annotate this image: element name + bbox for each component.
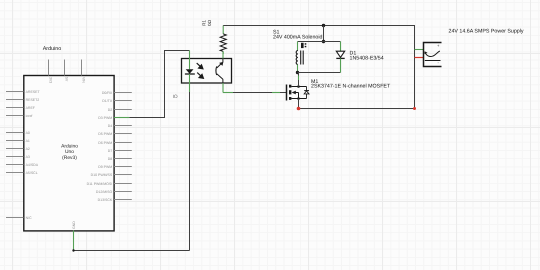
svg-text:Arduino: Arduino [43, 46, 62, 52]
pin GND (bottom) [72, 221, 76, 239]
svg-text:3V3: 3V3 [49, 77, 53, 83]
svg-text:(Rev3): (Rev3) [62, 155, 77, 161]
svg-text:A0: A0 [26, 131, 30, 135]
svg-text:D1/TX: D1/TX [102, 99, 113, 103]
svg-text:0Ω: 0Ω [207, 19, 212, 26]
wire optocoupler emitter to gate (green end) [223, 92, 233, 94]
svg-text:D3 PWM: D3 PWM [98, 116, 112, 120]
wire plug positive [415, 49, 424, 51]
optocoupler LED cathode leg [189, 74, 191, 92]
wire GND pin to ground rail [73, 239, 75, 251]
pin D10 PWM/SS (right) [91, 173, 132, 177]
pin D2 (right) [108, 108, 132, 112]
mosfet M1 gate bar [286, 85, 288, 101]
pin D7 (right) [108, 149, 132, 153]
svg-text:D8: D8 [108, 157, 113, 161]
diode D1 top leg [340, 42, 342, 52]
diode D1 [336, 51, 344, 58]
wire rail drop [323, 26, 325, 42]
svg-text:Uno: Uno [65, 149, 74, 155]
wire gate leg end [280, 92, 287, 94]
pin A5/SCL (left) [6, 171, 38, 175]
mosfet M1 drain leg [298, 73, 300, 76]
junction solenoid bottom node [296, 71, 299, 74]
wire source return to supply [299, 108, 415, 110]
junction source (red) [297, 107, 301, 111]
svg-text:D0/RX: D0/RX [102, 91, 113, 95]
optocoupler LED [185, 69, 195, 74]
resistor R1 top leg [222, 26, 224, 34]
resistor R1 bottom leg [222, 51, 224, 54]
pin A0 (left) [6, 131, 30, 135]
svg-text:AREF: AREF [26, 106, 35, 110]
pin ARESET (left) [6, 90, 40, 94]
svg-text:5V: 5V [65, 77, 69, 82]
pin D1/TX (right) [102, 99, 132, 103]
svg-text:A4/SDA: A4/SDA [26, 163, 39, 167]
svg-text:ARESET: ARESET [26, 90, 41, 94]
pin N/C (left) [6, 216, 32, 220]
pin D6 PWM (right) [98, 141, 132, 145]
wire optocoupler emitter to gate (middle) [233, 92, 272, 94]
wire plug negative (red) [415, 57, 424, 59]
mosfet M1 drain stub [291, 86, 306, 88]
resistor R1 [220, 34, 226, 52]
svg-text:IO: IO [173, 94, 178, 100]
mosfet M1 source leg [298, 99, 300, 109]
power plug J1 [424, 43, 442, 67]
solenoid S1 top leg [297, 42, 299, 51]
optocoupler LED anode leg [189, 51, 191, 70]
wire solenoid top row [298, 41, 341, 43]
junction drain stub [297, 85, 300, 88]
junction source stub [297, 97, 300, 100]
wire solenoid bottom to diode [298, 72, 341, 74]
diode D1 bottom leg [340, 58, 342, 72]
pin D8 (right) [108, 157, 132, 161]
pin A3 (left) [6, 155, 30, 159]
mosfet M1 channel pads [289, 85, 291, 100]
optocoupler phototransistor [216, 59, 223, 84]
svg-text:GND: GND [72, 221, 76, 229]
pin 3V3 (top) [49, 60, 53, 84]
solenoid S1 [296, 43, 306, 65]
junction return corner (red) [413, 107, 416, 110]
Arduino module body [24, 76, 114, 231]
pin D0/RX (right) [102, 91, 132, 95]
svg-text:D2: D2 [108, 108, 113, 112]
optocoupler emitter leg [222, 83, 224, 93]
svg-text:D13/SCK: D13/SCK [98, 198, 113, 202]
svg-text:VIN: VIN [82, 77, 86, 83]
pin D13/SCK (right) [98, 198, 132, 202]
svg-text:ioref: ioref [26, 114, 33, 118]
pin D3 PWM (right) [98, 116, 129, 120]
pin 5V (top) [65, 60, 69, 82]
svg-text:24V 14.6A SMPS Power Supply: 24V 14.6A SMPS Power Supply [449, 29, 524, 35]
pin ioref (left) [6, 114, 32, 118]
svg-text:D7: D7 [108, 149, 113, 153]
svg-text:D5 PWM: D5 PWM [98, 132, 112, 136]
pin A4/SDA (left) [6, 163, 39, 167]
pin D5 PWM (right) [98, 132, 132, 136]
pin AREF (left) [6, 106, 35, 110]
pin RESET2 (left) [6, 98, 39, 102]
mosfet M1 bulk arrow [292, 91, 299, 99]
svg-text:24V 400mA Solenoid: 24V 400mA Solenoid [273, 34, 323, 40]
optocoupler light arrows [197, 63, 204, 78]
svg-text:2SK3747-1E N-channel MOSFET: 2SK3747-1E N-channel MOSFET [311, 84, 391, 90]
wire ground rail [74, 250, 190, 252]
svg-text:R1: R1 [201, 19, 206, 25]
mosfet M1 source stub [291, 98, 306, 100]
svg-text:D6 PWM: D6 PWM [98, 141, 112, 145]
svg-text:D9 PWM: D9 PWM [98, 165, 112, 169]
wire +24V top rail [223, 26, 414, 109]
optocoupler body [182, 59, 232, 84]
svg-text:D10 PWM/SS: D10 PWM/SS [91, 173, 113, 177]
pin D4 (right) [108, 124, 132, 128]
svg-text:A1: A1 [26, 139, 30, 143]
svg-text:D4: D4 [108, 124, 113, 128]
mosfet M1 gate leg (green wire end) [272, 92, 280, 94]
solenoid S1 bottom leg [297, 65, 299, 73]
svg-text:A2: A2 [26, 147, 30, 151]
svg-text:Arduino: Arduino [61, 144, 78, 150]
svg-text:A3: A3 [26, 155, 30, 159]
wire LED cathode down to ground rail [189, 92, 191, 251]
Arduino Uno (Rev3) label [61, 144, 78, 161]
svg-text:1N5408-E3/54: 1N5408-E3/54 [350, 55, 384, 61]
pin D12/MISO (right) [96, 190, 132, 194]
junction on top rail [322, 24, 325, 27]
junction ground rail corner [72, 249, 74, 251]
pin VIN (top) [82, 60, 86, 84]
svg-text:D12/MISO: D12/MISO [96, 190, 113, 194]
optocoupler collector leg [222, 51, 224, 58]
wire D3 to optocoupler LED (net IO) [129, 51, 189, 118]
svg-text:A5/SCL: A5/SCL [26, 171, 38, 175]
svg-text:N/C: N/C [26, 216, 32, 220]
pin D11 PWM/MOSI (right) [87, 182, 132, 186]
pin A2 (left) [6, 147, 30, 151]
svg-text:D11 PWM/MOSI: D11 PWM/MOSI [87, 182, 113, 186]
pin A1 (left) [6, 139, 30, 143]
junction solenoid row [322, 40, 325, 43]
mosfet M1 body diode [304, 87, 309, 99]
svg-text:RESET2: RESET2 [26, 98, 40, 102]
pin D9 PWM (right) [98, 165, 132, 169]
